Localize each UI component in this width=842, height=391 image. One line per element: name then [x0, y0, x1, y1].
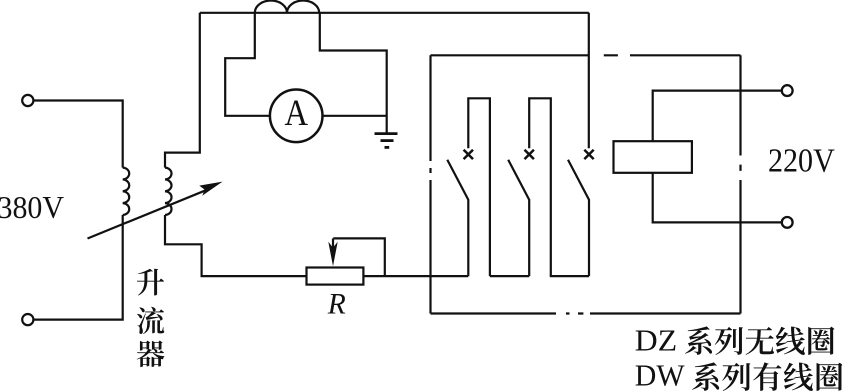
switch blade at x=468.3	[447, 160, 468, 276]
switch pole: fixed contact and link at x=468.3	[468, 98, 490, 276]
wire: secondary top up to main line	[165, 13, 200, 168]
label 升流器	[137, 269, 164, 296]
wire: main top line	[200, 12, 589, 14]
wire: CT secondary left lead to ammeter	[225, 13, 270, 116]
ammeter A	[270, 90, 323, 143]
wire: wiper bypass to output	[333, 238, 385, 276]
wire: secondary bottom to resistor	[165, 215, 308, 276]
inductor L1 (primary of booster)	[123, 168, 130, 215]
wire: pole1 link to pole2 blade	[490, 275, 529, 277]
trip coil (release coil)	[614, 141, 692, 173]
contact mark x at (589,154.2)	[584, 150, 593, 159]
arrow (variable coupling)	[88, 190, 207, 238]
wire: top terminal to transformer primary	[34, 101, 123, 168]
svg-text:DW: DW	[635, 357, 686, 391]
inductor L2 (secondary of booster)	[165, 168, 172, 215]
contact mark x at (468.3,154.2)	[464, 150, 473, 159]
contact mark x at (529.2,154.2)	[525, 150, 534, 159]
breaker enclosure right edge	[739, 55, 741, 313]
terminal J1 (380V top)	[22, 95, 33, 106]
wire: R output to switch	[363, 275, 468, 277]
switch pole: fixed contact and link at x=529.2	[529, 98, 551, 276]
wire: ammeter right lead	[323, 115, 387, 117]
wire: coil bottom to terminal	[653, 173, 782, 223]
ground	[375, 132, 398, 135]
svg-text:380V: 380V	[0, 190, 64, 225]
switch blade at x=589	[568, 160, 589, 276]
svg-text:220V: 220V	[768, 143, 835, 180]
terminal J4 (220V bottom)	[782, 217, 793, 228]
wire: primary bottom to bottom terminal	[34, 215, 123, 320]
svg-text:DZ: DZ	[635, 323, 677, 358]
breaker enclosure bottom edge	[431, 312, 741, 314]
wire: CT secondary right lead to ground	[320, 13, 387, 133]
wire: top line drop to pole3 fixed contact	[588, 13, 590, 149]
svg-text:A: A	[284, 92, 308, 133]
svg-text:R: R	[327, 288, 346, 320]
breaker enclosure left edge	[429, 55, 431, 313]
current transformer T2 humps	[255, 0, 319, 12]
terminal J2 (380V bottom)	[22, 314, 33, 325]
wiper arrow of R	[332, 238, 334, 253]
switch blade at x=529.2	[508, 160, 529, 276]
wire: coil top to terminal	[653, 91, 782, 142]
resistor R	[307, 268, 364, 285]
breaker enclosure (chain line) top edge	[431, 54, 741, 56]
terminal J3 (220V top)	[782, 85, 793, 96]
wire: pole2 link to pole3 blade	[550, 275, 589, 277]
